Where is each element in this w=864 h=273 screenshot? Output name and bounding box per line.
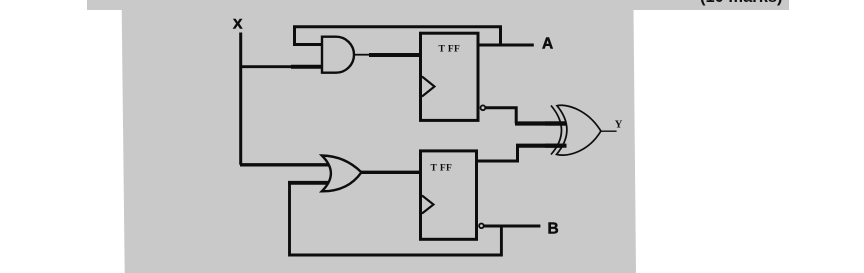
wire XOR output to Y [601, 130, 617, 132]
wire U1 Q output to A [478, 44, 534, 47]
wire feedback from A to AND upper input [295, 27, 501, 45]
svg-text:A: A [542, 36, 553, 53]
svg-text:B: B [548, 221, 559, 238]
wire OR output to bottom flip-flop T input [361, 171, 421, 174]
wire U2 Q output to XOR bottom input [477, 146, 518, 161]
flip-flop U2 clock triangle [422, 196, 434, 214]
svg-text:X: X [233, 16, 243, 32]
wire U1 Q-bar to XOR top input [485, 108, 516, 124]
grey main block [122, 10, 636, 273]
wire XOR bottom input stub [545, 144, 567, 148]
svg-text:Y: Y [615, 120, 623, 131]
grey top band [87, 0, 789, 10]
flip-flop U1 body [421, 33, 479, 120]
wire X vertical trunk and branch to OR top input [239, 33, 242, 165]
XOR gate body [557, 105, 601, 155]
flip-flop U1 clock triangle [422, 77, 435, 97]
wire U2 Q-bar to B [484, 225, 541, 228]
wire XOR top input stub [545, 121, 567, 125]
wire X branch to AND lower input [240, 65, 291, 68]
wire AND output to top flip-flop T input [354, 54, 369, 56]
U2 Q-bar bubble [479, 224, 484, 229]
XOR gate back arc [551, 106, 562, 155]
svg-text:T FF: T FF [431, 164, 453, 174]
OR gate [322, 156, 362, 192]
svg-text:(10 marks): (10 marks) [700, 0, 783, 6]
AND gate [322, 37, 354, 73]
U1 Q-bar bubble [481, 105, 486, 110]
wire B feedback to OR lower input [290, 183, 502, 255]
flip-flop U2 body [421, 151, 477, 239]
svg-text:T FF: T FF [439, 44, 461, 54]
